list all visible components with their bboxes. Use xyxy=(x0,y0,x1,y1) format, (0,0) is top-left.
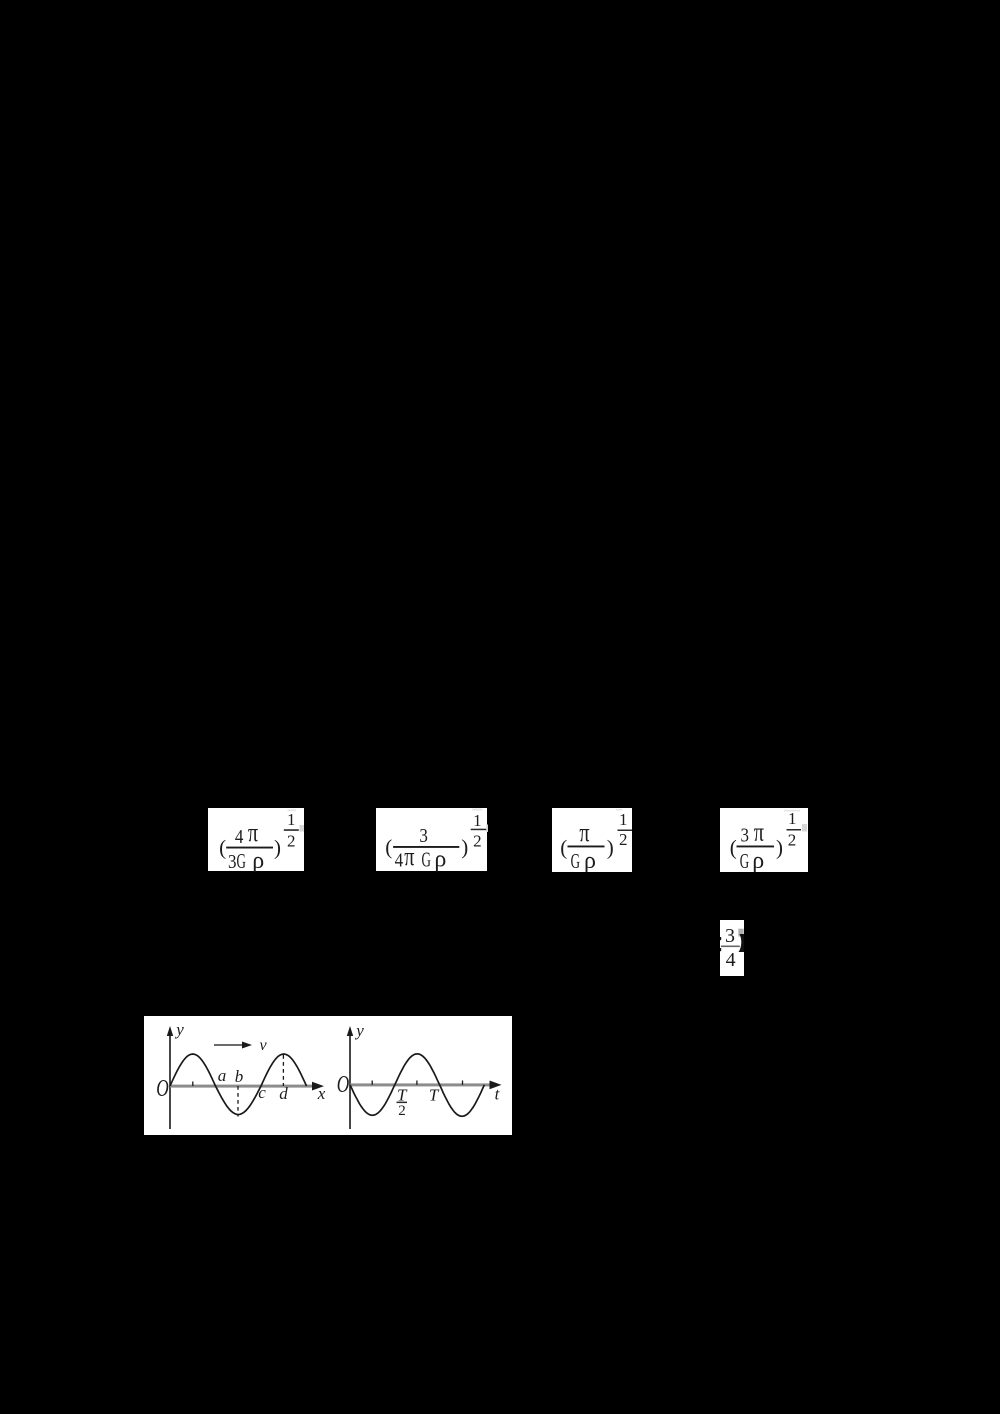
svg-text:T: T xyxy=(428,1085,439,1104)
svg-text:ρ: ρ xyxy=(435,847,447,873)
svg-text:4: 4 xyxy=(726,949,736,971)
svg-text:): ) xyxy=(461,835,468,859)
svg-text:3: 3 xyxy=(740,824,749,847)
svg-text:π: π xyxy=(754,818,764,847)
svg-text:π: π xyxy=(404,843,414,872)
svg-text:3: 3 xyxy=(725,924,735,946)
svg-text:G: G xyxy=(236,848,246,871)
svg-text:x: x xyxy=(316,1084,325,1103)
svg-text:T: T xyxy=(397,1085,408,1104)
svg-text:2: 2 xyxy=(398,1103,406,1119)
svg-text:4: 4 xyxy=(235,825,244,848)
svg-text:a: a xyxy=(217,1066,226,1085)
svg-text:(: ( xyxy=(385,835,392,859)
svg-text:π: π xyxy=(248,818,258,847)
svg-text:2: 2 xyxy=(287,831,296,850)
svg-text:2: 2 xyxy=(619,830,628,849)
svg-text:): ) xyxy=(607,835,614,859)
svg-text:t: t xyxy=(494,1084,500,1103)
svg-text:y: y xyxy=(354,1021,364,1040)
svg-text:ρ: ρ xyxy=(584,848,596,872)
svg-text:O: O xyxy=(336,1070,348,1098)
svg-text:): ) xyxy=(776,835,783,859)
svg-text:v: v xyxy=(259,1037,267,1054)
svg-text:ρ: ρ xyxy=(252,848,264,872)
svg-text:3: 3 xyxy=(420,825,429,848)
svg-text:y: y xyxy=(174,1020,184,1039)
svg-text:ρ: ρ xyxy=(752,848,764,872)
svg-text:G: G xyxy=(571,849,581,872)
svg-text:4: 4 xyxy=(395,849,404,872)
svg-text:(: ( xyxy=(219,835,226,859)
svg-text:c: c xyxy=(258,1083,266,1102)
svg-text:G: G xyxy=(740,849,750,872)
svg-text:2: 2 xyxy=(473,831,482,850)
svg-text:G: G xyxy=(422,847,432,871)
svg-text:): ) xyxy=(274,835,281,859)
svg-text:(: ( xyxy=(560,835,567,859)
svg-text:3: 3 xyxy=(228,850,237,871)
svg-text:π: π xyxy=(579,818,589,847)
svg-text:b: b xyxy=(234,1067,243,1086)
svg-text:1: 1 xyxy=(619,810,628,829)
svg-text:1: 1 xyxy=(473,811,482,830)
svg-text:d: d xyxy=(279,1084,288,1103)
svg-text:1: 1 xyxy=(788,809,797,828)
svg-text:1: 1 xyxy=(287,810,296,829)
svg-text:(: ( xyxy=(730,835,737,859)
svg-text:O: O xyxy=(156,1074,168,1102)
svg-text:2: 2 xyxy=(788,830,797,849)
